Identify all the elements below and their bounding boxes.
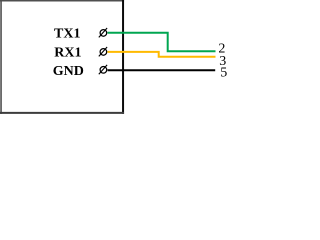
pin P2 (RX1) circle with slash bbox=[99, 47, 107, 56]
wire TX1 to pin 2 (green) bbox=[108, 33, 216, 51]
wire GND to pin 5 (black) bbox=[108, 69, 216, 71]
pin P1 (TX1) circle with slash bbox=[99, 28, 107, 37]
svg-text:RX1: RX1 bbox=[54, 45, 81, 60]
box top edge bbox=[0, 0, 124, 2]
svg-text:5: 5 bbox=[220, 66, 227, 81]
wire RX1 to pin 3 (orange) bbox=[108, 52, 216, 57]
svg-text:TX1: TX1 bbox=[54, 27, 80, 42]
device box (connector body) bbox=[0, 0, 124, 114]
svg-text:GND: GND bbox=[53, 64, 84, 79]
box left edge bbox=[0, 0, 2, 114]
pin P3 (GND) circle with slash bbox=[99, 65, 107, 74]
box right edge bbox=[122, 0, 124, 114]
box bottom edge bbox=[0, 112, 124, 114]
